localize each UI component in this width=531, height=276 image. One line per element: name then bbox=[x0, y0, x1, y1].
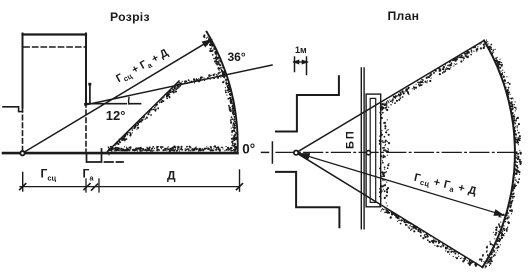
title: Розріз (Section) bbox=[110, 10, 150, 24]
dimension tick at node (left end) bbox=[20, 172, 26, 191]
building section: right wall hidden (dashed) bbox=[85, 103, 87, 152]
sight line B at 12deg from window head bbox=[85, 65, 272, 105]
grade step at left of building bbox=[3, 107, 23, 112]
dimension tick at right end bbox=[237, 170, 243, 191]
svg-text:Гсц + Га + Д: Гсц + Га + Д bbox=[412, 172, 477, 200]
svg-text:БП: БП bbox=[345, 129, 357, 149]
svg-text:1м: 1м bbox=[295, 45, 307, 55]
radius ray Гсц+Га+Д with double arrowheads bbox=[299, 154, 504, 216]
svg-text:Д: Д bbox=[167, 169, 176, 183]
building section: right wall (solid) bbox=[85, 34, 87, 103]
svg-text:Розріз: Розріз bbox=[110, 10, 150, 24]
svg-text:Гсц: Гсц bbox=[41, 167, 57, 183]
window frame: inner box of base plane strip bbox=[370, 98, 376, 202]
label БП (base plane), rotated bbox=[345, 129, 357, 149]
plan fan arc bbox=[483, 41, 515, 268]
scale bar 1m with end ticks bbox=[294, 57, 308, 75]
stipple: above upper fan edge bbox=[380, 42, 485, 110]
stipple: above lower fan edge (inside) bbox=[381, 209, 477, 266]
label: 0 degrees bbox=[242, 141, 255, 156]
stipple: vertical band at window base plane bbox=[380, 102, 390, 206]
plan wall outline, lower leaf bbox=[276, 172, 339, 227]
window frame: glazing double line bbox=[361, 68, 364, 229]
dimension line under section bbox=[20, 186, 240, 188]
stipple: along steep left edge of fan bbox=[108, 83, 181, 155]
stipple: along upper 12deg edge of fan bbox=[180, 73, 225, 85]
stipple: along baseline inside fan bbox=[108, 146, 232, 151]
svg-text:Га: Га bbox=[83, 167, 95, 183]
basement light-well pit below baseline bbox=[87, 149, 102, 162]
label: 36 degrees bbox=[228, 50, 246, 64]
svg-text:12°: 12° bbox=[106, 108, 126, 123]
second point circle on axis at base plane bbox=[366, 151, 370, 155]
arc of fan (0..36deg) bbox=[207, 32, 238, 153]
plan wall outline, upper leaf bbox=[276, 76, 339, 131]
line A: ray Гсц+Га+Д from node bbox=[25, 40, 212, 152]
svg-text:План: План bbox=[388, 9, 420, 23]
node: window center point circle bbox=[294, 151, 298, 155]
dimension ticks for Га bbox=[84, 179, 99, 192]
plan fan upper edge ray bbox=[296, 41, 484, 153]
hidden pit bottom continuation (dashes) bbox=[105, 161, 124, 163]
ground baseline (0 deg line) bbox=[3, 152, 238, 155]
title: План (Plan) bbox=[388, 9, 420, 23]
svg-text:0°: 0° bbox=[242, 141, 255, 156]
scale bar label 1м bbox=[295, 45, 307, 55]
label: Гсц+Га+Д along ray (rotated) bbox=[114, 47, 171, 87]
label: Д dimension bbox=[167, 169, 176, 183]
label: Гсц+Га+Д along plan ray (rotated) bbox=[412, 172, 477, 200]
window frame: outer box of base plane strip bbox=[366, 94, 381, 207]
building section: left wall (solid above grade) bbox=[22, 34, 24, 108]
building section: dashed ceiling line bbox=[24, 46, 85, 48]
stipple: inside of arc bbox=[204, 36, 237, 152]
label: Га dimension bbox=[83, 167, 95, 183]
node: observation point circle bbox=[20, 151, 24, 155]
plan fan lower edge ray bbox=[296, 153, 482, 267]
label: Гсц dimension bbox=[41, 167, 57, 183]
label: 12 degrees bbox=[106, 108, 126, 123]
building section: left wall hidden below grade (dashed) bbox=[22, 108, 24, 150]
horizontal sight line from window head bbox=[85, 103, 141, 105]
fan steep left edge line bbox=[106, 81, 179, 153]
stipple: inside of plan arc lower part bbox=[480, 215, 504, 262]
window-head mark: short vertical with tick at building face bbox=[88, 83, 91, 104]
centerline (dash-dot axis) bbox=[276, 151, 521, 153]
svg-text:36°: 36° bbox=[228, 50, 246, 64]
stipple: outside of plan arc bbox=[485, 40, 521, 268]
building section: roof slab bbox=[23, 33, 87, 35]
centerline start dash and station tick bbox=[262, 142, 273, 163]
12deg angle arc tick bbox=[128, 97, 130, 104]
